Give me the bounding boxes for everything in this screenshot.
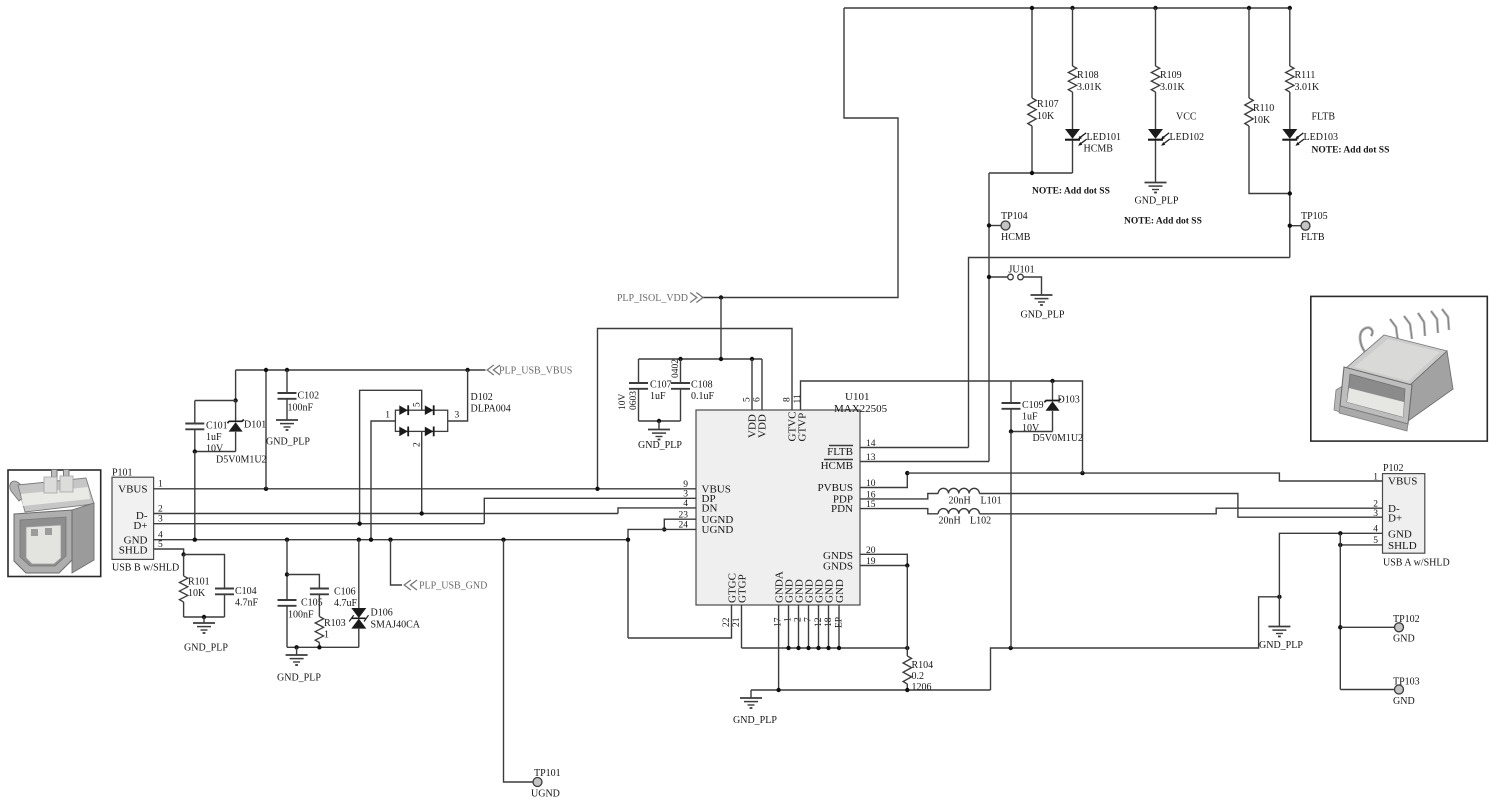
mounting tab left bbox=[1334, 384, 1346, 414]
resistor R109 bbox=[1155, 8, 1157, 66]
front face bbox=[14, 510, 72, 573]
wire C101/D101 bottom bbox=[195, 451, 236, 453]
svg-text:R108: R108 bbox=[1077, 70, 1099, 81]
wire right ground run bbox=[991, 597, 1280, 690]
svg-text:GND_PLP: GND_PLP bbox=[733, 715, 777, 726]
svg-text:NOTE: Add dot SS: NOTE: Add dot SS bbox=[1032, 187, 1110, 197]
svg-text:6: 6 bbox=[753, 397, 763, 402]
svg-text:0.1uF: 0.1uF bbox=[691, 391, 715, 402]
test point TP102 bbox=[1338, 625, 1342, 629]
wire GNDA pin17 bbox=[778, 605, 780, 690]
svg-text:4.7nF: 4.7nF bbox=[235, 598, 259, 609]
resistor R103 bbox=[318, 594, 320, 616]
svg-text:JU101: JU101 bbox=[1009, 265, 1035, 276]
svg-text:TP104: TP104 bbox=[1001, 211, 1028, 222]
wire pin15 PDN bbox=[860, 509, 938, 514]
wire pin10 PVBUS bbox=[860, 473, 907, 487]
svg-text:GND_PLP: GND_PLP bbox=[1259, 640, 1303, 651]
wire pin14 FLTB bbox=[860, 447, 969, 449]
node PLP_ISOL_VDD chevron bbox=[690, 293, 703, 303]
svg-text:3.01K: 3.01K bbox=[1077, 82, 1103, 93]
test point TP104 bbox=[989, 225, 1001, 227]
svg-text:21: 21 bbox=[732, 617, 742, 627]
svg-text:UGND: UGND bbox=[702, 524, 734, 536]
wire rail left drop bbox=[235, 370, 237, 401]
wire GNDS down to R104 bbox=[906, 566, 908, 649]
diode array D102 bbox=[385, 392, 510, 447]
capacitor C109 bbox=[1010, 381, 1012, 403]
svg-text:GND_PLP: GND_PLP bbox=[266, 437, 310, 448]
svg-text:C102: C102 bbox=[298, 391, 320, 402]
svg-text:R111: R111 bbox=[1295, 70, 1316, 81]
svg-text:1: 1 bbox=[385, 411, 390, 421]
bottom lip bbox=[1339, 406, 1408, 431]
metal pins on top bbox=[52, 470, 58, 494]
wire pin20 GNDS bbox=[860, 554, 907, 565]
ground P102 side bbox=[1278, 597, 1280, 627]
svg-text:10K: 10K bbox=[1253, 115, 1271, 126]
diode D101 zener bbox=[235, 401, 237, 422]
white plastic strips on top bbox=[21, 487, 90, 506]
front rim face bbox=[1340, 367, 1412, 424]
svg-text:D+: D+ bbox=[133, 520, 147, 532]
svg-text:GND_PLP: GND_PLP bbox=[277, 673, 321, 684]
svg-text:D103: D103 bbox=[1058, 395, 1080, 406]
wire D102 pin3 bbox=[448, 370, 468, 421]
wire pin1 VBUS line bbox=[154, 488, 696, 490]
connector P102 bbox=[1383, 474, 1425, 554]
front recess bbox=[20, 517, 66, 566]
front opening bbox=[1347, 374, 1405, 417]
svg-text:GND_PLP: GND_PLP bbox=[184, 643, 228, 654]
wire D102 pin5 loop bbox=[360, 390, 422, 523]
svg-text:1uF: 1uF bbox=[206, 432, 222, 443]
connector photo box P101 (USB B receptacle photo) bbox=[8, 470, 101, 577]
svg-text:0402: 0402 bbox=[671, 359, 681, 378]
svg-text:2: 2 bbox=[1373, 500, 1378, 510]
wire UGND pin24 line bbox=[628, 529, 696, 638]
wire PVBUS rail to P102 pin1 bbox=[907, 473, 1382, 481]
svg-text:D5V0M1U2: D5V0M1U2 bbox=[1033, 433, 1084, 444]
svg-text:UGND: UGND bbox=[531, 789, 560, 800]
svg-text:0.2: 0.2 bbox=[912, 671, 925, 682]
svg-text:PLP_USB_VBUS: PLP_USB_VBUS bbox=[499, 366, 572, 377]
svg-text:3.01K: 3.01K bbox=[1295, 82, 1321, 93]
wire C109 column down bbox=[1010, 432, 1012, 649]
svg-text:D102: D102 bbox=[471, 392, 493, 403]
wire GTGC pin22 bbox=[628, 605, 732, 638]
svg-text:10V: 10V bbox=[618, 394, 628, 411]
wire DN jog bbox=[618, 508, 696, 514]
svg-text:3: 3 bbox=[455, 411, 460, 421]
svg-text:C106: C106 bbox=[334, 587, 356, 598]
connector photo box P102 (USB A receptacle photo) bbox=[1311, 296, 1488, 441]
svg-text:VDD: VDD bbox=[757, 414, 769, 438]
wire D102 pin2 drop bbox=[421, 431, 423, 513]
wire VBUS column up bbox=[265, 370, 267, 489]
svg-text:D5V0M1U2: D5V0M1U2 bbox=[216, 455, 267, 466]
pin 11 GTVP wire bbox=[801, 381, 1012, 410]
svg-text:GND: GND bbox=[1393, 634, 1415, 645]
svg-text:3: 3 bbox=[1373, 509, 1378, 519]
LED103 bbox=[1282, 129, 1304, 146]
svg-text:GTVP: GTVP bbox=[797, 413, 809, 442]
svg-text:C101: C101 bbox=[206, 421, 228, 432]
ground JU101 bbox=[1031, 295, 1053, 305]
resistor R108 bbox=[1072, 8, 1074, 66]
svg-text:FLTB: FLTB bbox=[827, 446, 853, 458]
wire pin4 GND line bbox=[154, 539, 628, 541]
svg-text:R110: R110 bbox=[1253, 103, 1274, 114]
wire L102 to P102 pin2 bbox=[979, 508, 1382, 514]
svg-text:TP102: TP102 bbox=[1393, 614, 1420, 625]
svg-text:D101: D101 bbox=[244, 420, 266, 431]
pin 6 stub bbox=[761, 359, 763, 410]
svg-text:3.01K: 3.01K bbox=[1160, 82, 1186, 93]
IC U101 MAX22505 body bbox=[696, 410, 860, 605]
svg-text:SHLD: SHLD bbox=[119, 545, 148, 557]
svg-text:8: 8 bbox=[783, 397, 793, 402]
capacitor C107 bbox=[638, 359, 640, 383]
wire EP stub bbox=[838, 605, 840, 648]
capacitor C106 bbox=[287, 575, 319, 589]
wire SHLD column down bbox=[1339, 533, 1341, 689]
wire PLP_USB_GND branch bbox=[388, 538, 392, 542]
junction dots on top rail bbox=[1030, 6, 1034, 10]
svg-text:FLTB: FLTB bbox=[1312, 112, 1336, 123]
svg-text:PLP_USB_GND: PLP_USB_GND bbox=[419, 581, 487, 592]
svg-text:0603: 0603 bbox=[629, 391, 639, 410]
test point TP103 bbox=[1340, 689, 1394, 691]
svg-text:DN: DN bbox=[702, 503, 718, 515]
wire C101 top branch bbox=[195, 400, 236, 402]
left hook pin bbox=[1360, 328, 1372, 355]
svg-text:PVBUS: PVBUS bbox=[818, 482, 853, 494]
junction dot isol-vdd tee bbox=[719, 295, 723, 299]
diode D106 TVS bbox=[357, 538, 361, 542]
svg-text:TP105: TP105 bbox=[1301, 211, 1328, 222]
wire vdd drop bbox=[720, 298, 722, 360]
svg-text:GND: GND bbox=[1393, 696, 1415, 707]
wire left drop to PLP_ISOL_VDD bbox=[702, 8, 899, 298]
svg-text:22: 22 bbox=[722, 617, 732, 627]
svg-text:1: 1 bbox=[158, 480, 163, 490]
svg-text:NOTE: Add dot SS: NOTE: Add dot SS bbox=[1124, 217, 1202, 227]
ground R101/C104 bbox=[193, 623, 215, 633]
svg-text:1206: 1206 bbox=[912, 682, 932, 693]
wire pin16 PDP bbox=[860, 494, 938, 499]
wire pin2 stub bbox=[798, 605, 800, 648]
capacitor C104 bbox=[184, 555, 225, 589]
svg-text:R107: R107 bbox=[1037, 99, 1059, 110]
svg-text:100nF: 100nF bbox=[288, 609, 314, 620]
wire PLP_USB_VBUS rail bbox=[236, 369, 486, 371]
wire C109 bottom rail bbox=[1011, 431, 1053, 433]
wire pin13 HCMB bbox=[860, 461, 989, 463]
svg-text:D106: D106 bbox=[371, 608, 393, 619]
ground GNDA bbox=[740, 698, 762, 708]
capacitor C105 bbox=[285, 538, 289, 542]
svg-text:1: 1 bbox=[1373, 473, 1378, 483]
svg-text:PLP_ISOL_VDD: PLP_ISOL_VDD bbox=[617, 293, 688, 304]
wire pin1 stub bbox=[788, 605, 790, 648]
wire pin5 SHLD bbox=[154, 549, 184, 555]
wire C109 top rail bbox=[1011, 381, 1083, 473]
inductor L102 bbox=[938, 509, 979, 514]
shell right face bbox=[1408, 351, 1453, 421]
svg-text:HCMB: HCMB bbox=[1084, 144, 1114, 155]
capacitor C101 bbox=[194, 401, 196, 424]
wire R101/C104 bottom bbox=[184, 616, 225, 618]
svg-text:100nF: 100nF bbox=[288, 403, 314, 414]
svg-text:GNDS: GNDS bbox=[823, 560, 853, 572]
svg-text:C108: C108 bbox=[691, 380, 713, 391]
wire L101 to P102 pin3 bbox=[979, 494, 1382, 518]
wire pin7 stub bbox=[808, 605, 810, 648]
wire pin2 D- line bbox=[154, 513, 618, 515]
svg-text:1uF: 1uF bbox=[650, 391, 666, 402]
wire pin18 stub bbox=[828, 605, 830, 648]
ground LED102 bbox=[1145, 183, 1167, 193]
svg-text:USB B w/SHLD: USB B w/SHLD bbox=[112, 563, 179, 574]
test point TP105 bbox=[1290, 225, 1301, 227]
svg-text:P101: P101 bbox=[112, 468, 133, 479]
svg-text:R109: R109 bbox=[1160, 70, 1182, 81]
white plastic block bbox=[26, 525, 61, 564]
svg-text:GTGP: GTGP bbox=[737, 574, 749, 603]
capacitor C108 bbox=[680, 359, 682, 383]
svg-text:DLPA004: DLPA004 bbox=[471, 404, 511, 415]
wire pin3 D+ line bbox=[154, 523, 485, 525]
svg-text:SHLD: SHLD bbox=[1388, 540, 1417, 552]
svg-text:FLTB: FLTB bbox=[1301, 232, 1325, 243]
svg-text:GND: GND bbox=[834, 579, 846, 603]
bent pins on top bbox=[1390, 309, 1449, 342]
ground C105 bbox=[286, 655, 308, 665]
wire DP jog bbox=[484, 498, 696, 523]
ground C102 bbox=[276, 420, 298, 430]
top face bbox=[18, 478, 94, 512]
svg-text:GND_PLP: GND_PLP bbox=[1021, 310, 1065, 321]
test point TP101 bbox=[533, 778, 542, 787]
svg-text:GND_PLP: GND_PLP bbox=[638, 440, 682, 451]
svg-text:U101: U101 bbox=[845, 391, 869, 403]
svg-text:11: 11 bbox=[793, 394, 803, 403]
LED101 bbox=[1065, 129, 1087, 146]
svg-text:C107: C107 bbox=[650, 380, 672, 391]
svg-text:SMAJ40CA: SMAJ40CA bbox=[371, 620, 421, 631]
wire UGND pin23 stub bbox=[664, 519, 696, 529]
wire GNDS lower bus bbox=[751, 689, 991, 691]
svg-text:20nH: 20nH bbox=[949, 496, 971, 507]
svg-text:20nH: 20nH bbox=[939, 516, 961, 527]
svg-text:MAX22505: MAX22505 bbox=[834, 403, 888, 415]
svg-text:TP103: TP103 bbox=[1393, 676, 1420, 687]
wire TP101 column bbox=[501, 538, 505, 542]
svg-text:LED102: LED102 bbox=[1170, 132, 1204, 143]
svg-text:PDN: PDN bbox=[831, 503, 853, 515]
svg-text:1: 1 bbox=[324, 630, 329, 641]
capacitor C102 bbox=[286, 370, 288, 393]
shell top face bbox=[1346, 335, 1447, 385]
wire P102 pin5 SHLD bbox=[1340, 544, 1382, 546]
svg-text:1uF: 1uF bbox=[1022, 412, 1038, 423]
jumper JU101 bbox=[987, 275, 991, 279]
svg-text:VCC: VCC bbox=[1176, 112, 1197, 123]
wire P102 pin4 GND bbox=[1279, 533, 1382, 597]
white tongue bbox=[1347, 388, 1404, 417]
pin 5 stub bbox=[751, 359, 753, 410]
wire pin12 stub bbox=[818, 605, 820, 648]
svg-text:D+: D+ bbox=[1388, 513, 1402, 525]
svg-text:LED103: LED103 bbox=[1304, 132, 1338, 143]
wire D102 pin1 bbox=[371, 421, 395, 540]
resistor R101 bbox=[181, 552, 185, 556]
LED102 bbox=[1148, 129, 1170, 146]
resistor R104 bbox=[905, 646, 909, 650]
svg-text:NOTE: Add dot SS: NOTE: Add dot SS bbox=[1312, 146, 1390, 156]
svg-text:10V: 10V bbox=[206, 443, 224, 454]
svg-text:HCMB: HCMB bbox=[1001, 232, 1031, 243]
svg-text:L102: L102 bbox=[970, 516, 991, 527]
svg-text:GND_PLP: GND_PLP bbox=[1135, 196, 1179, 207]
wire FLTB net bbox=[969, 258, 1290, 448]
svg-text:TP101: TP101 bbox=[534, 768, 561, 779]
svg-text:USB A w/SHLD: USB A w/SHLD bbox=[1383, 558, 1450, 569]
svg-text:VBUS: VBUS bbox=[118, 484, 147, 496]
svg-text:5: 5 bbox=[743, 397, 753, 402]
resistor R111 bbox=[1289, 8, 1291, 66]
svg-text:HCMB: HCMB bbox=[821, 460, 853, 472]
pin 8 GTVC loop bbox=[598, 329, 793, 489]
ground C107/C108 bbox=[648, 430, 670, 440]
svg-text:R103: R103 bbox=[324, 618, 346, 629]
wire pin19 GNDS bbox=[860, 565, 907, 567]
wire GND pins bus bbox=[742, 647, 908, 649]
resistor R110 bbox=[1248, 8, 1250, 98]
wire HCMB vertical bbox=[988, 173, 990, 462]
wire GTGP pin21 bbox=[741, 605, 743, 648]
svg-text:L101: L101 bbox=[981, 496, 1002, 507]
svg-text:R101: R101 bbox=[188, 577, 210, 588]
svg-text:VBUS: VBUS bbox=[1388, 476, 1417, 488]
svg-text:4.7uF: 4.7uF bbox=[334, 598, 358, 609]
wire cap bottom rail bbox=[639, 420, 681, 422]
right side face bbox=[72, 503, 94, 573]
connector P101 bbox=[112, 477, 154, 559]
wire top rail bbox=[844, 7, 1290, 9]
wire cap rail bbox=[639, 358, 763, 360]
svg-text:LED101: LED101 bbox=[1087, 132, 1121, 143]
wire column to GND line bbox=[194, 452, 196, 540]
wire HCMB horizontal bbox=[989, 172, 1073, 174]
svg-text:P102: P102 bbox=[1383, 463, 1404, 474]
svg-text:GND: GND bbox=[1388, 529, 1412, 541]
left hook tab bbox=[10, 481, 26, 501]
svg-text:10K: 10K bbox=[188, 588, 206, 599]
svg-text:C109: C109 bbox=[1022, 400, 1044, 411]
svg-text:C104: C104 bbox=[235, 586, 257, 597]
svg-text:R104: R104 bbox=[912, 660, 934, 671]
resistor R107 bbox=[1031, 8, 1033, 98]
diode D103 zener bbox=[1052, 381, 1054, 400]
node PLP_USB_VBUS chevron bbox=[487, 365, 500, 375]
wire bottom rail bbox=[287, 646, 359, 648]
svg-text:10K: 10K bbox=[1037, 111, 1055, 122]
inductor L101 bbox=[938, 488, 979, 493]
